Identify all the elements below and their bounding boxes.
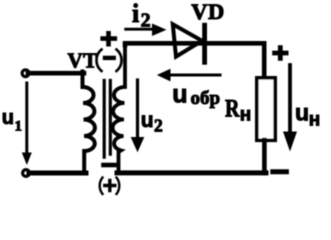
polarity − (right) [273, 169, 287, 174]
svg-text:2: 2 [141, 9, 151, 31]
terminal bottom-left [23, 170, 30, 177]
svg-text:VT: VT [68, 49, 98, 73]
reverse voltage arrow u_obr [166, 74, 220, 77]
svg-text:u: u [172, 81, 187, 109]
diode cathode bar [202, 25, 207, 62]
polarity (−) secondary top [96, 50, 101, 72]
wire top-left (terminal to primary) [28, 71, 84, 76]
transformer core line 1 [103, 81, 106, 158]
resistor R_n box [257, 78, 275, 141]
polarity + (secondary top) [103, 33, 115, 44]
svg-text:VD: VD [191, 0, 225, 24]
voltage arrow u2 [136, 80, 139, 138]
top wire [125, 43, 264, 77]
bottom wire [117, 170, 266, 175]
polarity − (secondary bottom) [104, 163, 115, 168]
transformer core line 2 [109, 81, 112, 155]
svg-text:i: i [132, 0, 139, 28]
svg-text:u: u [295, 100, 309, 126]
svg-text:2: 2 [154, 116, 163, 136]
svg-text:u: u [141, 109, 154, 132]
svg-text:R: R [225, 94, 240, 122]
svg-text:обр: обр [191, 88, 221, 109]
load voltage arrow u_n [288, 65, 292, 133]
svg-text:1: 1 [15, 119, 23, 135]
svg-text:н: н [240, 105, 251, 126]
voltage arrow u1 [25, 83, 28, 154]
terminal top-left [22, 70, 29, 77]
diode VD triangle [173, 24, 202, 56]
transformer secondary winding [113, 44, 125, 173]
polarity (+) secondary bottom [100, 178, 103, 195]
wire below resistor [262, 140, 267, 173]
current arrow i2 [126, 28, 154, 31]
svg-text:н: н [309, 110, 320, 131]
wire bottom-left (terminal to primary) [29, 171, 86, 176]
svg-text:u: u [2, 107, 14, 129]
transformer primary winding [83, 72, 95, 174]
polarity + (right) [275, 48, 287, 59]
